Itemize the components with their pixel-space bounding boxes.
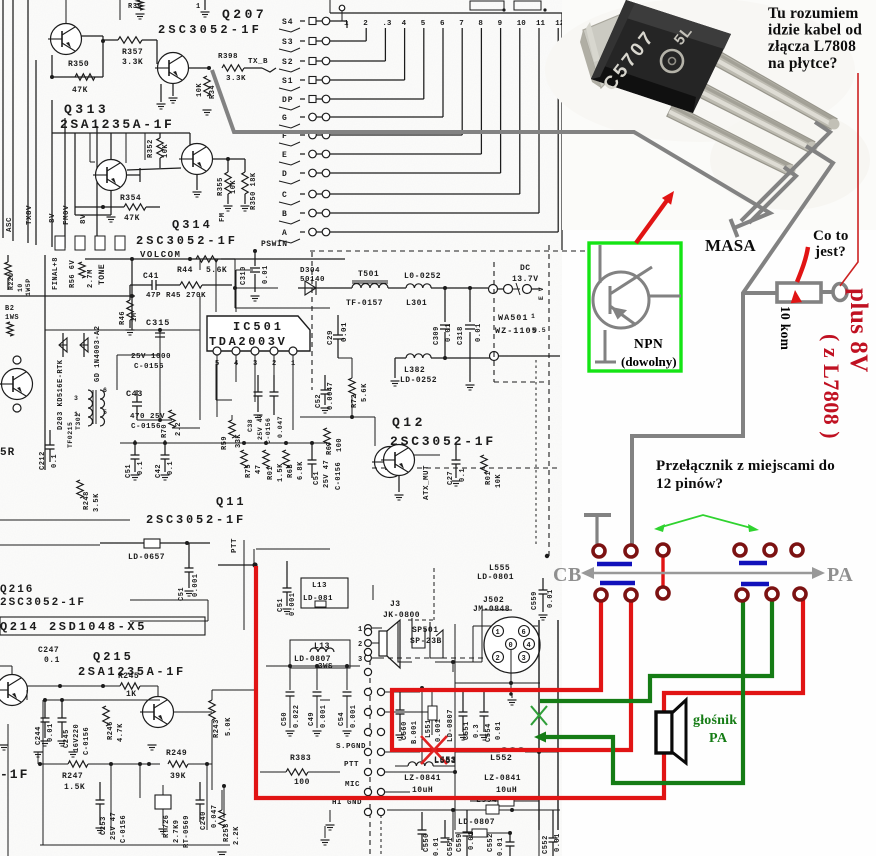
svg-text:0.1: 0.1 [51, 454, 59, 468]
svg-text:C551: C551 [447, 837, 455, 856]
svg-text:12 pinów?: 12 pinów? [656, 476, 723, 492]
svg-text:JK-0800: JK-0800 [383, 611, 420, 620]
svg-text:1.5K: 1.5K [64, 783, 85, 792]
svg-text:10uH: 10uH [412, 786, 433, 795]
svg-text:R357: R357 [122, 48, 143, 57]
svg-text:R247: R247 [62, 772, 83, 781]
svg-text:C38: C38 [247, 419, 254, 432]
svg-text:C51: C51 [277, 598, 285, 612]
svg-text:0.022: 0.022 [293, 704, 301, 728]
svg-text:J502: J502 [483, 596, 504, 605]
svg-text:3: 3 [522, 655, 526, 663]
svg-text:2: 2 [496, 655, 500, 663]
svg-text:C309: C309 [433, 326, 441, 345]
svg-text:2: 2 [363, 20, 368, 28]
svg-text:0.01: 0.01 [495, 721, 503, 740]
svg-text:1K: 1K [126, 690, 137, 699]
svg-text:0.0047: 0.0047 [327, 382, 335, 410]
svg-text:D304: D304 [300, 267, 320, 275]
svg-text:DC: DC [520, 264, 531, 273]
svg-text:C29: C29 [327, 330, 335, 345]
svg-text:0.01: 0.01 [47, 723, 55, 742]
svg-text:RT-0569: RT-0569 [183, 815, 191, 848]
svg-text:IC501: IC501 [233, 320, 284, 334]
svg-text:S2: S2 [282, 58, 294, 67]
svg-text:Przełącznik z miejscami do: Przełącznik z miejscami do [656, 458, 835, 474]
svg-text:L555: L555 [489, 564, 510, 573]
svg-text:0.1: 0.1 [44, 656, 60, 665]
svg-text:C51: C51 [313, 471, 321, 485]
svg-text:LD-0657: LD-0657 [128, 553, 165, 562]
svg-text:3: 3 [358, 656, 363, 664]
svg-text:1: 1 [74, 411, 78, 418]
svg-text:Q313: Q313 [64, 102, 109, 117]
svg-text:C550: C550 [423, 833, 431, 852]
svg-text:T501: T501 [358, 270, 379, 279]
svg-text:0.5: 0.5 [533, 327, 546, 334]
svg-text:25V 47: 25V 47 [323, 460, 331, 488]
svg-text:1: 1 [291, 360, 296, 368]
svg-text:C212: C212 [39, 451, 47, 470]
svg-text:R350 18K: R350 18K [250, 172, 258, 210]
svg-text:13.7V: 13.7V [512, 275, 539, 284]
svg-text:2.7M: 2.7M [87, 269, 95, 288]
svg-text:L0-0252: L0-0252 [404, 272, 441, 281]
svg-text:C-0156: C-0156 [83, 727, 91, 755]
svg-text:LZ-0841: LZ-0841 [484, 774, 521, 783]
svg-text:C240: C240 [200, 811, 208, 830]
svg-text:1W5P: 1W5P [25, 278, 32, 296]
svg-text:1: 1 [531, 313, 535, 320]
svg-text:PA: PA [709, 731, 728, 746]
svg-text:0.001: 0.001 [435, 718, 443, 742]
svg-text:LZ-0841: LZ-0841 [404, 774, 441, 783]
svg-text:ATX_MUT: ATX_MUT [423, 465, 431, 500]
svg-text:FM0V: FM0V [63, 205, 71, 225]
svg-text:R01: R01 [485, 471, 493, 485]
svg-text:L382: L382 [404, 366, 425, 375]
svg-text:33K: 33K [235, 434, 243, 448]
svg-text:6: 6 [522, 629, 526, 637]
svg-text:2.2: 2.2 [175, 422, 183, 436]
svg-text:C315: C315 [146, 318, 170, 328]
svg-text:C245: C245 [63, 729, 71, 748]
svg-text:C49: C49 [308, 712, 316, 726]
svg-text:5.6K: 5.6K [361, 383, 369, 402]
svg-text:C554: C554 [485, 723, 493, 742]
svg-text:FINAL+8: FINAL+8 [52, 257, 60, 290]
svg-text:jest?: jest? [814, 244, 846, 260]
svg-text:R70: R70 [161, 424, 169, 438]
svg-text:2SC3052-1F: 2SC3052-1F [136, 234, 238, 248]
svg-text:L553: L553 [434, 756, 456, 766]
svg-text:4: 4 [527, 642, 531, 650]
svg-text:25V 47: 25V 47 [257, 414, 264, 440]
svg-text:C51: C51 [178, 587, 186, 601]
svg-text:L552: L552 [490, 753, 512, 763]
svg-text:-1F: -1F [0, 767, 29, 782]
svg-text:2SC3052-1F: 2SC3052-1F [0, 597, 86, 609]
svg-text:(dowolny): (dowolny) [621, 354, 677, 369]
svg-text:0.01: 0.01 [445, 323, 453, 342]
svg-text:MASA: MASA [705, 236, 756, 255]
svg-text:C318: C318 [457, 326, 465, 345]
svg-text:C-0156: C-0156 [265, 418, 272, 444]
svg-text:Q11: Q11 [216, 495, 247, 509]
svg-text:E: E [282, 151, 288, 160]
svg-text:WA501: WA501 [498, 313, 529, 323]
svg-text:39K: 39K [170, 772, 186, 781]
svg-text:SP-23B: SP-23B [410, 637, 442, 646]
svg-text:C: C [282, 191, 288, 200]
svg-text:6.8K: 6.8K [297, 461, 305, 480]
svg-text:3.3K: 3.3K [122, 58, 143, 67]
svg-text:D: D [282, 170, 288, 179]
svg-text:0.01: 0.01 [497, 837, 505, 856]
svg-text:0.01: 0.01 [433, 837, 441, 856]
svg-text:DP: DP [282, 96, 294, 105]
svg-text:0.001: 0.001 [320, 704, 328, 728]
svg-text:5: 5 [103, 409, 107, 416]
svg-text:Q207: Q207 [222, 7, 267, 22]
svg-text:S3: S3 [282, 38, 294, 47]
svg-text:3WS: 3WS [318, 663, 333, 671]
svg-text:0.001: 0.001 [350, 704, 358, 728]
svg-text:LD-0252: LD-0252 [400, 376, 437, 385]
svg-text:3.3K: 3.3K [226, 75, 246, 83]
svg-text:25V 1000: 25V 1000 [131, 353, 171, 361]
svg-text:0.047: 0.047 [211, 804, 219, 828]
svg-text:0.01: 0.01 [475, 323, 483, 342]
svg-text:C-0156: C-0156 [120, 815, 128, 843]
svg-text:2: 2 [358, 641, 363, 649]
svg-text:0.047: 0.047 [277, 416, 284, 438]
svg-text:3: 3 [253, 360, 258, 368]
svg-text:1: 1 [496, 629, 500, 637]
svg-text:5.6K: 5.6K [206, 266, 227, 275]
svg-text:0.01: 0.01 [262, 265, 270, 284]
svg-text:10K: 10K [162, 144, 170, 158]
svg-text:ASC: ASC [6, 217, 14, 232]
svg-text:S4: S4 [282, 18, 294, 27]
svg-text:TONE: TONE [98, 264, 107, 285]
svg-text:C253: C253 [100, 816, 108, 835]
svg-text:A: A [282, 229, 288, 238]
svg-text:5R: 5R [0, 447, 15, 459]
svg-text:( z L7808 ): ( z L7808 ) [819, 334, 844, 439]
svg-text:L301: L301 [406, 299, 427, 308]
svg-text:5: 5 [421, 20, 426, 28]
svg-text:C50: C50 [281, 712, 289, 726]
svg-text:C247: C247 [38, 646, 59, 655]
svg-text:Co to: Co to [813, 228, 849, 244]
svg-text:0.01: 0.01 [468, 831, 476, 850]
svg-text:FM: FM [219, 213, 227, 222]
svg-text:Q12: Q12 [392, 415, 426, 430]
svg-text:Q314: Q314 [172, 218, 213, 232]
svg-text:MIC: MIC [345, 781, 360, 789]
svg-text:1.5K: 1.5K [277, 463, 285, 482]
svg-text:47K: 47K [124, 214, 140, 223]
svg-text:C43: C43 [126, 389, 143, 399]
svg-text:NPN: NPN [634, 336, 663, 351]
svg-text:1: 1 [196, 3, 201, 11]
svg-text:C244: C244 [35, 726, 43, 745]
svg-text:plus 8V: plus 8V [845, 288, 872, 373]
svg-text:R46: R46 [119, 311, 127, 325]
svg-text:11: 11 [536, 20, 546, 28]
svg-text:0.001: 0.001 [289, 592, 297, 616]
svg-text:Q215: Q215 [93, 650, 134, 664]
svg-text:Q216: Q216 [0, 584, 34, 596]
svg-text:B2: B2 [5, 305, 14, 313]
svg-text:J3: J3 [390, 600, 401, 609]
svg-text:C552: C552 [487, 833, 495, 852]
svg-text:R383: R383 [290, 754, 311, 763]
svg-text:TF0215: TF0215 [67, 422, 74, 448]
svg-text:47K: 47K [72, 86, 88, 95]
svg-text:2.2K: 2.2K [233, 826, 241, 845]
svg-text:6: 6 [440, 20, 445, 28]
svg-text:50140: 50140 [300, 276, 325, 284]
svg-text:GD 1N4003-A2: GD 1N4003-A2 [94, 326, 102, 382]
svg-text:C-0156: C-0156 [131, 423, 161, 431]
svg-text:E V: E V [538, 287, 545, 300]
svg-text:głośnik: głośnik [693, 713, 737, 728]
svg-text:złącza L7808: złącza L7808 [768, 38, 856, 55]
svg-text:.3: .3 [382, 20, 392, 28]
svg-text:100: 100 [336, 438, 344, 452]
svg-text:10uH: 10uH [496, 786, 517, 795]
svg-text:LD-0807: LD-0807 [458, 818, 495, 827]
svg-text:8: 8 [478, 20, 483, 28]
svg-text:10K: 10K [495, 474, 503, 488]
svg-text:HI GND: HI GND [332, 799, 362, 807]
svg-text:TX8V: TX8V [26, 205, 34, 225]
svg-text:SP501: SP501 [412, 626, 439, 635]
svg-text:S1: S1 [282, 77, 294, 86]
svg-text:R245: R245 [118, 672, 139, 681]
svg-text:PA: PA [827, 564, 853, 586]
svg-text:10: 10 [517, 20, 527, 28]
svg-text:R249: R249 [166, 749, 187, 758]
svg-text:R354: R354 [120, 194, 141, 203]
svg-text:C42: C42 [155, 464, 163, 478]
svg-text:100: 100 [294, 778, 310, 787]
svg-text:1: 1 [358, 626, 363, 634]
svg-text:4: 4 [234, 360, 239, 368]
svg-text:10K: 10K [196, 83, 204, 97]
svg-text:na płytce?: na płytce? [768, 55, 838, 72]
svg-text:2SA1235A-1F: 2SA1235A-1F [60, 117, 174, 132]
svg-text:0.001: 0.001 [192, 573, 200, 597]
svg-text:3.5K: 3.5K [93, 493, 101, 512]
svg-text:5.0K: 5.0K [225, 717, 233, 736]
svg-text:R350: R350 [68, 60, 89, 69]
svg-text:1: 1 [344, 20, 349, 28]
svg-text:R44: R44 [177, 266, 193, 275]
svg-text:0.3: 0.3 [473, 724, 481, 738]
svg-text:R355: R355 [217, 177, 225, 196]
svg-text:WZ-1105: WZ-1105 [495, 326, 538, 336]
svg-text:C41: C41 [143, 272, 159, 281]
svg-text:LD-0801: LD-0801 [477, 573, 514, 582]
svg-text:3: 3 [74, 395, 78, 402]
svg-text:R352: R352 [147, 139, 155, 158]
svg-text:6: 6 [103, 387, 107, 394]
svg-text:C54: C54 [338, 712, 346, 726]
svg-text:C27: C27 [447, 471, 455, 485]
svg-text:10K: 10K [230, 180, 238, 194]
svg-text:R56 6V: R56 6V [69, 259, 77, 288]
svg-text:10: 10 [17, 283, 24, 292]
svg-text:R34: R34 [209, 85, 217, 99]
svg-text:C51: C51 [125, 464, 133, 478]
svg-text:idzie kabel od: idzie kabel od [768, 22, 862, 39]
svg-text:LD-0807: LD-0807 [447, 709, 455, 742]
svg-text:C559: C559 [531, 591, 539, 610]
svg-text:2SC3052-1F: 2SC3052-1F [158, 23, 262, 37]
svg-text:R398: R398 [218, 53, 238, 61]
svg-text:L13: L13 [314, 642, 330, 651]
svg-text:B.001: B.001 [411, 720, 419, 744]
svg-text:2SC3052-1F: 2SC3052-1F [146, 513, 246, 527]
svg-text:1WS: 1WS [5, 314, 19, 322]
svg-text:R248: R248 [83, 491, 91, 510]
svg-text:0.1: 0.1 [137, 461, 145, 475]
svg-text:G: G [282, 114, 288, 123]
svg-text:Tu rozumiem: Tu rozumiem [768, 5, 858, 22]
svg-text:L13: L13 [312, 582, 327, 590]
svg-text:9: 9 [498, 20, 503, 28]
svg-text:S.PGND: S.PGND [336, 743, 366, 751]
svg-text:C-0156: C-0156 [335, 462, 343, 490]
svg-text:R01: R01 [267, 466, 275, 480]
svg-text:4.7K: 4.7K [117, 723, 125, 742]
svg-text:Q214 2SD1048-X5: Q214 2SD1048-X5 [0, 620, 147, 634]
svg-text:TX_B: TX_B [248, 58, 268, 66]
svg-text:R229: R229 [8, 272, 15, 290]
svg-text:PTT: PTT [344, 761, 359, 769]
svg-text:TF-0157: TF-0157 [346, 299, 383, 308]
svg-text:0.01: 0.01 [547, 589, 555, 608]
svg-text:25V 47: 25V 47 [110, 812, 118, 840]
svg-text:0.1: 0.1 [167, 461, 175, 475]
svg-text:2.7K9: 2.7K9 [173, 819, 181, 843]
svg-text:4: 4 [402, 20, 407, 28]
svg-text:0: 0 [509, 642, 513, 650]
svg-text:7: 7 [459, 20, 464, 28]
svg-text:47: 47 [255, 465, 263, 474]
svg-text:B: B [282, 210, 288, 219]
svg-text:16V220: 16V220 [73, 724, 81, 752]
svg-text:10 kom: 10 kom [778, 306, 793, 351]
svg-text:C52: C52 [315, 394, 323, 408]
svg-text:47P R45 270K: 47P R45 270K [146, 292, 206, 300]
svg-text:C310: C310 [240, 266, 248, 285]
svg-text:D203 KD516E-RTK: D203 KD516E-RTK [57, 359, 65, 430]
svg-text:PTT: PTT [231, 538, 239, 553]
svg-text:R243: R243 [213, 719, 221, 738]
svg-text:CB: CB [553, 564, 582, 586]
svg-text:0.1: 0.1 [459, 468, 467, 482]
svg-text:2: 2 [272, 360, 277, 368]
svg-text:8V: 8V [49, 213, 57, 223]
